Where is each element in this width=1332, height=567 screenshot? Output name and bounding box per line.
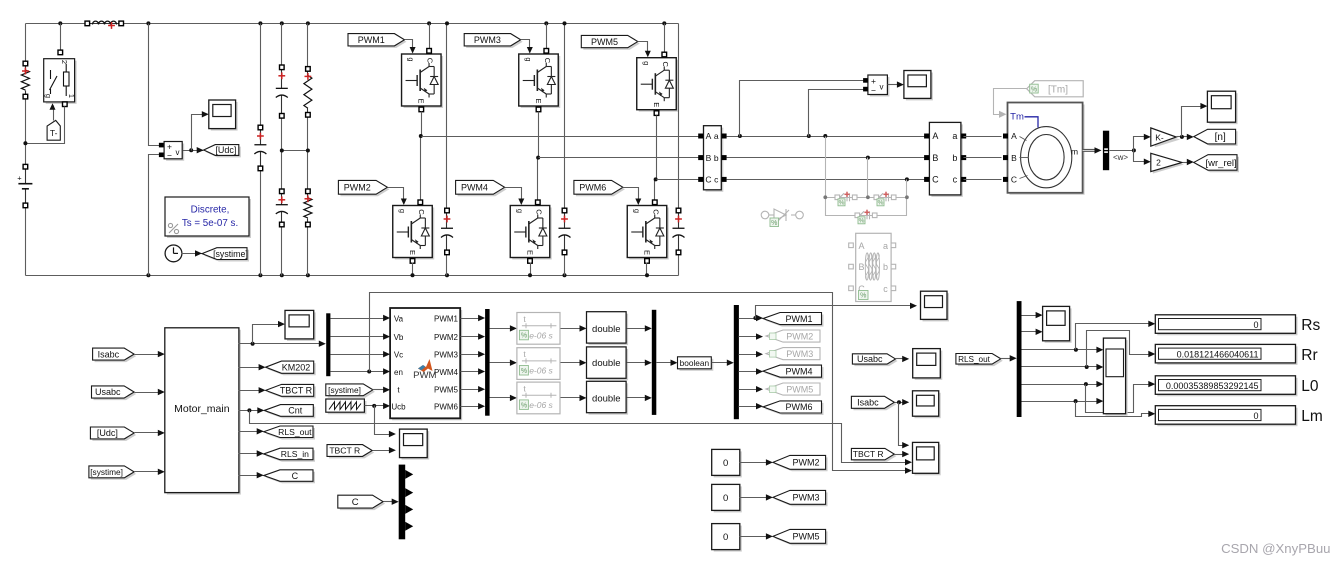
wire PWM6 to gate: [623, 188, 639, 204]
scope pwm carrier: [402, 431, 430, 460]
svg-text:RLS_in: RLS_in: [281, 449, 309, 459]
goto tag PWM3 b: [775, 492, 828, 506]
wire PWMtag4: [739, 371, 760, 373]
svg-text:C: C: [352, 497, 359, 508]
wire phase a link: [727, 136, 927, 138]
clock block: [165, 245, 182, 262]
wire PWM1 to gate: [405, 40, 413, 53]
svg-text:a: a: [952, 131, 957, 141]
svg-text:Usabc: Usabc: [857, 354, 883, 364]
svg-text:en: en: [394, 368, 403, 377]
wire mux2 in: [627, 362, 649, 364]
goto tag n: [1196, 131, 1238, 146]
node b-fault: [866, 156, 870, 160]
wire mux1 in: [627, 328, 649, 330]
wire TBCTR2 to scope: [373, 450, 393, 452]
svg-text:2: 2: [60, 60, 69, 64]
wire w out: [1110, 150, 1134, 152]
wire PWM2 to gate: [388, 188, 404, 204]
capacitor C2b: [281, 192, 283, 205]
goto tag C: [266, 472, 315, 484]
capacitor C1: [260, 128, 262, 145]
wire phase c link: [727, 179, 927, 181]
svg-text:C: C: [543, 58, 552, 64]
wire PWM1 to scope: [756, 306, 914, 319]
svg-text:0: 0: [723, 532, 728, 543]
goto tag PWM5 b: [775, 531, 828, 545]
from tag systime2: [91, 468, 136, 480]
goto tag PWM3 disabled: [766, 348, 820, 360]
goto tag PWM5 disabled: [766, 383, 820, 395]
IGBT Q3: [521, 56, 561, 108]
svg-text:0.00035389853292145: 0.00035389853292145: [1166, 381, 1259, 391]
node Q2-rail: [411, 273, 415, 277]
wire Usabc in: [135, 392, 162, 394]
svg-text:B: B: [1011, 153, 1017, 163]
wire fault a drop: [825, 137, 827, 198]
scope motor: [287, 312, 316, 341]
wire rail to C3: [546, 24, 548, 51]
from tag systime3: [328, 386, 375, 398]
wire Vc: [331, 354, 387, 356]
svg-text:[Tm]: [Tm]: [1048, 84, 1068, 95]
wire machine port stubs: [1020, 137, 1027, 141]
wire KM202: [239, 367, 263, 369]
svg-text:1: 1: [67, 94, 76, 98]
data type conversion double 2: [589, 349, 629, 380]
svg-text:Ucb: Ucb: [391, 403, 406, 412]
wire machine m out: [1083, 149, 1098, 152]
svg-text:Vb: Vb: [394, 333, 404, 342]
svg-text:%: %: [878, 199, 884, 206]
from tag Usabc: [94, 388, 137, 400]
svg-text:Cnt: Cnt: [288, 406, 303, 416]
svg-text:C: C: [1011, 175, 1017, 185]
wire l0 display: [1086, 385, 1152, 413]
wire PWM1 out: [461, 318, 482, 320]
svg-text:A: A: [706, 131, 712, 141]
svg-text:E: E: [652, 102, 661, 107]
wire RLS_out: [239, 431, 261, 433]
wire Ucb to scope: [375, 406, 393, 435]
wire w to gain 2: [1134, 151, 1147, 162]
tag PWM3: [466, 36, 523, 48]
tag PWM1: [350, 36, 407, 48]
data type conversion double 1: [589, 314, 629, 345]
wire rr display: [1087, 331, 1152, 367]
svg-text:A: A: [932, 131, 938, 141]
svg-text:−: −: [167, 151, 172, 161]
svg-text:PWM6: PWM6: [786, 402, 813, 412]
gain K: [1155, 132, 1180, 147]
wire PWM2 out: [461, 336, 482, 338]
scope Vab: [906, 73, 933, 101]
wire left source branch: [25, 24, 27, 64]
wire PWMtag6: [739, 406, 760, 408]
svg-text:double: double: [592, 358, 621, 369]
svg-text:KM202: KM202: [282, 362, 311, 372]
goto tag RLS_in: [266, 450, 315, 462]
svg-text:C: C: [661, 61, 670, 67]
display Rs: [1157, 317, 1297, 336]
svg-text:PWM4: PWM4: [434, 368, 459, 377]
wire c1 branch: [260, 24, 262, 128]
svg-text:PWM1: PWM1: [786, 314, 813, 324]
tag PWM4: [458, 182, 507, 196]
wire RLS to demux: [1001, 358, 1014, 360]
resistor R2b: [307, 192, 309, 198]
disabled fault branch: [826, 197, 907, 199]
node rail-c2: [280, 21, 284, 25]
wire rls sel3: [1022, 384, 1101, 386]
wire phase B: [539, 157, 701, 159]
svg-text:Usabc: Usabc: [95, 387, 121, 397]
wire C out: [239, 475, 261, 477]
disabled transport delay 3: [517, 382, 560, 414]
wire systime in: [135, 471, 162, 473]
svg-text:%: %: [521, 333, 527, 340]
svg-text:[systime]: [systime]: [328, 385, 361, 395]
resistor Rin: [25, 64, 27, 71]
svg-text:PWM3: PWM3: [474, 35, 501, 45]
svg-text:C: C: [651, 209, 660, 215]
wire phase A: [422, 136, 701, 138]
wire lm display: [1076, 402, 1152, 417]
wire PWMtag1: [739, 318, 760, 320]
svg-text:%: %: [521, 368, 527, 375]
svg-text:2: 2: [1156, 158, 1161, 168]
wire vm2 to scope: [888, 84, 901, 86]
svg-text:PWM5: PWM5: [434, 386, 459, 395]
voltmeter Udc: [166, 144, 184, 161]
svg-text:PWM4: PWM4: [461, 183, 488, 193]
wire TBCTR3 scope: [895, 454, 906, 456]
wire PWMtag3: [739, 354, 760, 356]
svg-text:TBCT R: TBCT R: [280, 386, 313, 396]
wire PWM6 out: [461, 406, 482, 408]
wire gainK to scope: [1182, 107, 1205, 137]
scope Udc: [211, 102, 238, 131]
wire top DC rail: [26, 23, 679, 25]
wire Va: [331, 318, 387, 320]
capacitor Csnub2: [564, 211, 566, 229]
svg-text:PWM5: PWM5: [591, 37, 618, 47]
tag PWM6: [576, 182, 625, 196]
wire const to PWM5: [740, 536, 770, 538]
goto tag PWM6: [765, 403, 824, 415]
node rail-breaker: [58, 21, 62, 25]
wire snubber C3: [678, 24, 680, 211]
svg-text:g: g: [515, 209, 524, 213]
wire Vb: [331, 336, 387, 338]
svg-text:Rs: Rs: [1301, 317, 1320, 334]
wire breaker out to source: [26, 107, 65, 144]
node rail-c1: [258, 21, 262, 25]
constant 0 #2: [714, 486, 742, 512]
tag PWM5: [583, 37, 640, 49]
wire rls sel4: [1022, 401, 1101, 403]
wire rls sel2: [1022, 366, 1101, 368]
wire vm plus: [149, 24, 160, 146]
svg-text:PWM5: PWM5: [793, 532, 820, 542]
svg-text:m: m: [1071, 147, 1078, 157]
wire vm to scope: [192, 115, 206, 151]
tag T-: [47, 120, 60, 140]
svg-text:g: g: [407, 57, 416, 61]
svg-text:Ts = 5e-07 s.: Ts = 5e-07 s.: [182, 218, 238, 229]
disabled three-winding block: [856, 233, 891, 301]
wire const to PWM2: [740, 462, 770, 464]
demux RLS: [1017, 301, 1022, 417]
svg-text:%: %: [1031, 86, 1037, 93]
svg-text:T-: T-: [50, 128, 58, 138]
wire double3 in: [561, 397, 584, 399]
svg-text:C: C: [292, 471, 299, 481]
svg-text:g: g: [44, 94, 53, 98]
from tag TBCTR3: [853, 450, 896, 461]
wire breaker to rail: [60, 24, 62, 51]
wire t in: [373, 389, 387, 391]
node Q6-rail: [645, 273, 649, 277]
wire phase b link: [727, 157, 927, 159]
goto tag wr_rel: [1196, 157, 1239, 173]
svg-text:PWM: PWM: [413, 370, 436, 381]
wire en feedback loop: [370, 293, 909, 471]
goto tag KM202: [268, 363, 316, 375]
asynchronous machine: [1010, 105, 1085, 195]
svg-text:B: B: [932, 153, 938, 163]
MATLAB logo: [418, 359, 433, 372]
svg-text:v: v: [880, 83, 884, 92]
svg-text:E: E: [534, 98, 543, 103]
svg-text:boolean: boolean: [680, 358, 710, 368]
svg-text:%: %: [771, 220, 777, 227]
wire out1 to mux: [239, 343, 323, 345]
demux signal: [326, 313, 330, 376]
wire PWM3 out: [461, 354, 482, 356]
wire rail to C5: [664, 24, 666, 55]
svg-text:g: g: [632, 209, 641, 213]
svg-text:Isabc: Isabc: [98, 349, 120, 359]
svg-text:−: −: [871, 86, 876, 96]
repeating sequence sawtooth: [328, 401, 367, 414]
svg-text:PWM3: PWM3: [434, 351, 459, 360]
demux pwm6: [485, 309, 490, 416]
wire vm2 plus: [740, 81, 865, 137]
wire fault b drop: [867, 158, 869, 198]
wire r2 branch: [307, 24, 309, 69]
wire rls sel1: [1022, 349, 1101, 351]
goto tag systime: [204, 250, 249, 262]
wire RLS_in: [239, 453, 261, 455]
node a-vm2p: [738, 134, 742, 138]
wire PWM4 out: [461, 371, 482, 373]
node rr: [1085, 365, 1089, 369]
disabled breaker Fa: [835, 193, 857, 201]
svg-text:PWM2: PWM2: [793, 458, 820, 468]
svg-text:C: C: [534, 209, 543, 215]
node a-vm2m: [807, 134, 811, 138]
svg-text:Vc: Vc: [394, 351, 403, 360]
node rail-C1: [427, 21, 431, 25]
wire mid link: [282, 150, 308, 152]
svg-text:0.018121466040611: 0.018121466040611: [1177, 350, 1259, 360]
wire Udc in: [135, 432, 162, 434]
goto tag PWM2 b: [775, 457, 828, 471]
wire rail to C1: [429, 24, 431, 51]
wire to boolean: [657, 362, 675, 364]
svg-text:<w>: <w>: [1113, 153, 1128, 162]
demux pwm out: [734, 305, 739, 419]
svg-text:[Udc]: [Udc]: [97, 428, 118, 438]
scope Isabc: [915, 393, 941, 418]
wire vm2 minus: [809, 90, 865, 137]
svg-text:PWM5: PWM5: [786, 384, 813, 394]
svg-text:CSDN @XnyPBuu: CSDN @XnyPBuu: [1221, 541, 1330, 556]
from tag Usabc2: [854, 356, 897, 366]
svg-text:b: b: [883, 262, 888, 272]
wire Isabc in: [135, 354, 162, 356]
svg-text:C: C: [417, 209, 426, 215]
wire C to demux: [384, 501, 396, 503]
goto tag TBCTR: [268, 386, 316, 398]
disabled breaker Fb: [874, 193, 896, 201]
from tag Tm disabled: [1027, 81, 1084, 97]
svg-text:TBCT R: TBCT R: [853, 449, 884, 459]
wire bottom DC rail: [26, 275, 679, 277]
svg-text:L0: L0: [1301, 378, 1319, 395]
node source-breaker: [23, 141, 27, 145]
wire Q2 emitter to rail: [412, 263, 414, 276]
disabled transport delay 2: [517, 348, 560, 380]
mux 3to1: [652, 310, 657, 415]
svg-text:g: g: [524, 57, 533, 61]
svg-text:0: 0: [723, 458, 728, 469]
data type conversion boolean: [680, 359, 714, 371]
wire PWMtag2: [739, 336, 760, 338]
wire Q5 emitter to phase: [655, 116, 657, 203]
demux C: [399, 465, 406, 540]
wire Usabc2 scope: [896, 358, 906, 360]
wire c2 branch: [281, 24, 283, 68]
svg-text:a: a: [883, 241, 888, 251]
svg-text:PWM3: PWM3: [793, 493, 820, 503]
bus selector: [1103, 131, 1109, 171]
wire PWM3 to gate: [521, 40, 530, 53]
node w: [1132, 148, 1136, 152]
gain 2: [1153, 155, 1184, 173]
IGBT Q1: [404, 56, 444, 108]
IGBT Q4: [512, 208, 552, 260]
svg-text:PWM6: PWM6: [579, 183, 606, 193]
svg-text:B: B: [858, 262, 864, 272]
capacitor C2a: [281, 68, 283, 89]
svg-text:[n]: [n]: [1215, 132, 1226, 143]
display L0: [1157, 378, 1297, 397]
wire PWM5 to gate: [638, 42, 648, 56]
svg-text:PWM1: PWM1: [434, 314, 459, 323]
wire double1 in: [561, 328, 584, 330]
wire Cnt: [239, 410, 261, 412]
svg-text:0: 0: [723, 493, 728, 504]
svg-text:g: g: [398, 209, 407, 213]
constant 0 #1: [714, 451, 742, 477]
selector block: [1105, 340, 1127, 416]
node c-fault: [905, 177, 909, 181]
svg-text:RLS_out: RLS_out: [278, 427, 312, 437]
scope RLS: [1045, 308, 1072, 342]
wire phase C: [657, 179, 701, 181]
wire Q3 emitter to phase: [538, 112, 539, 203]
svg-text:[Udc]: [Udc]: [215, 145, 236, 155]
node a-fault: [823, 134, 827, 138]
node en feedback: [367, 370, 371, 374]
wire rls scope2: [1022, 331, 1040, 333]
wire delay2 in: [490, 362, 514, 364]
svg-text:RLS_out: RLS_out: [958, 355, 991, 364]
svg-text:B: B: [706, 153, 712, 163]
wire vm minus: [149, 155, 160, 276]
wire PWMtag5: [739, 389, 760, 391]
wire fault c drop: [906, 180, 908, 198]
wire Cnt long to scope: [250, 411, 909, 463]
wire PWM4 to gate: [505, 188, 522, 204]
node gainK: [1180, 135, 1184, 139]
svg-text:Motor_main: Motor_main: [174, 403, 230, 415]
goto tag Udc: [206, 147, 241, 158]
wire vm out: [183, 150, 204, 152]
svg-text:Discrete,: Discrete,: [191, 205, 230, 216]
svg-text:PWM2: PWM2: [344, 183, 371, 193]
PWM MATLAB function block: [392, 310, 462, 420]
three-phase VI measurement 1: [706, 128, 724, 192]
disabled block phase splitter: [761, 209, 803, 222]
wire T- to g: [53, 106, 55, 121]
voltmeter Vab: [870, 77, 890, 97]
three-phase VI measurement 2: [931, 124, 963, 196]
wire Isabc down: [899, 403, 906, 446]
svg-text:%: %: [859, 217, 865, 224]
wire TBCTR out: [239, 390, 263, 392]
svg-text:PWM1: PWM1: [358, 35, 385, 45]
capacitor Csnub3: [678, 211, 680, 229]
wire Q6 emitter to rail: [646, 263, 648, 276]
wire Tm disabled: [994, 89, 1027, 115]
svg-text:E: E: [417, 98, 426, 103]
wire boolean out: [712, 362, 731, 364]
IGBT Q6: [629, 208, 669, 260]
node lm: [1074, 399, 1078, 403]
svg-text:e-06 s: e-06 s: [529, 330, 553, 340]
wire clock to systime: [182, 253, 203, 255]
svg-text:C: C: [705, 175, 711, 185]
scope Usabc: [915, 351, 943, 380]
wire snubber C1: [446, 24, 448, 211]
wire Ucb in: [365, 405, 387, 407]
svg-text:PWM2: PWM2: [786, 331, 813, 341]
data type conversion double 3: [589, 383, 629, 414]
svg-text:0: 0: [1253, 320, 1258, 330]
from tag TBCTR2: [329, 447, 374, 459]
wire mux3 in: [627, 397, 649, 399]
wire w to gain K: [1134, 137, 1147, 151]
svg-text:Rr: Rr: [1301, 347, 1317, 364]
svg-text:double: double: [592, 324, 621, 335]
svg-text:TBCT R: TBCT R: [329, 446, 360, 456]
constant 0 #3: [714, 526, 742, 552]
from tag RLS_out2: [958, 356, 1003, 367]
scope speed: [1209, 93, 1237, 124]
